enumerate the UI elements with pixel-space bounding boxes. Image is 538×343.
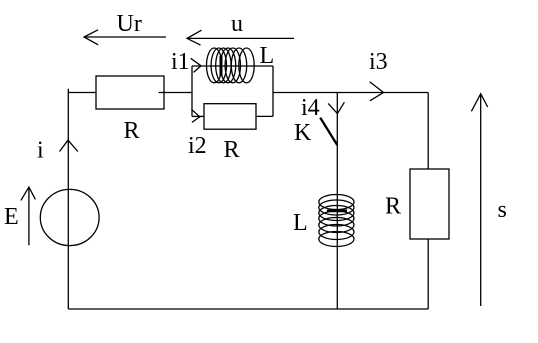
svg-text:i1: i1 xyxy=(171,49,190,75)
resistor R3 (right branch) xyxy=(410,169,449,239)
wire: R1 to parallel node xyxy=(159,92,193,94)
arrow i2 (current into bottom branch) xyxy=(191,109,199,122)
svg-text:i3: i3 xyxy=(369,49,388,75)
arrow s (flux/scale arrow on far right, pointing up) xyxy=(471,94,487,306)
arrow i (current up left branch) xyxy=(60,140,78,151)
resistor R1 xyxy=(96,76,164,109)
label L (inductor L2) xyxy=(293,210,308,236)
label R (resistor R3 value) xyxy=(385,194,401,220)
label i4 xyxy=(301,95,320,121)
label Ur xyxy=(117,11,142,37)
wire: top-left segment into R xyxy=(68,92,96,94)
label i2 xyxy=(188,133,207,159)
node B: right side of parallel section xyxy=(272,66,274,116)
wire: middle branch vertical (switch + L2) xyxy=(336,93,338,310)
node A: left side of parallel section xyxy=(191,66,193,116)
svg-text:Ur: Ur xyxy=(117,11,142,37)
label R (resistor R2 value) xyxy=(224,137,240,163)
label i xyxy=(37,138,44,164)
svg-text:K: K xyxy=(294,120,312,146)
svg-text:L: L xyxy=(293,210,308,236)
wire: bottom return wire xyxy=(68,308,428,310)
arrow i3 (on main wire) xyxy=(370,82,384,101)
wire: main wire from parallel section to right branch xyxy=(273,92,428,94)
wire: right branch upper segment xyxy=(427,93,429,170)
svg-text:i2: i2 xyxy=(188,133,207,159)
label R (resistor R1 value) xyxy=(124,118,140,144)
resistor R2 (parallel branch) xyxy=(204,104,256,130)
arrow i4 (current down middle branch) xyxy=(328,102,344,113)
wire: bottom branch right segment xyxy=(256,115,273,117)
label i3 xyxy=(369,49,388,75)
wire: top branch of parallel section xyxy=(192,65,273,67)
wire: bottom branch left segment xyxy=(192,115,204,117)
arrow i1 (current into top branch) xyxy=(191,58,201,72)
svg-text:i4: i4 xyxy=(301,95,320,121)
arrow E (emf direction, up) xyxy=(21,187,36,245)
svg-text:R: R xyxy=(124,118,140,144)
svg-text:R: R xyxy=(385,194,401,220)
inductor L1 (top coil) xyxy=(207,48,255,83)
svg-text:L: L xyxy=(260,43,275,69)
label L (inductor L1) xyxy=(260,43,275,69)
source E (circle) xyxy=(40,189,99,245)
label K xyxy=(294,120,312,146)
label E xyxy=(4,204,19,230)
switch K (open blade) xyxy=(320,118,337,145)
svg-text:E: E xyxy=(4,204,19,230)
wire: right branch lower segment xyxy=(427,239,429,309)
wire: left vertical branch (E branch) xyxy=(67,89,69,309)
label i1 xyxy=(171,49,190,75)
svg-text:R: R xyxy=(224,137,240,163)
label s xyxy=(498,197,507,223)
arrow u (voltage across parallel section, pointing left) xyxy=(187,30,294,45)
svg-text:u: u xyxy=(231,11,243,37)
label u xyxy=(231,11,243,37)
arrow Ur (voltage across R, pointing left) xyxy=(84,30,166,45)
svg-text:s: s xyxy=(498,197,507,223)
svg-text:i: i xyxy=(37,138,44,164)
inductor L2 (middle coil) xyxy=(319,195,354,247)
